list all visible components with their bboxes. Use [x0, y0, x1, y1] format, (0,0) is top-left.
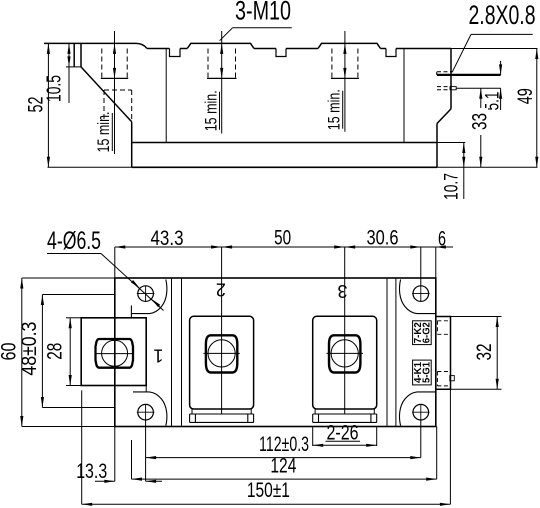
svg-text:48±0.3: 48±0.3 — [18, 322, 41, 376]
svg-text:150±1: 150±1 — [247, 479, 290, 502]
svg-text:2: 2 — [216, 279, 226, 299]
svg-text:3-M10: 3-M10 — [235, 0, 291, 26]
svg-text:124: 124 — [270, 455, 296, 478]
svg-text:32: 32 — [473, 344, 496, 361]
svg-text:43.3: 43.3 — [151, 227, 184, 250]
svg-text:6: 6 — [438, 228, 446, 251]
svg-text:3: 3 — [337, 281, 347, 301]
svg-text:4-Ø6.5: 4-Ø6.5 — [47, 227, 101, 255]
svg-text:6-G2: 6-G2 — [421, 322, 432, 343]
svg-text:15 min.: 15 min. — [325, 89, 344, 130]
svg-text:50: 50 — [274, 227, 291, 250]
svg-text:112±0.3: 112±0.3 — [259, 433, 309, 456]
svg-text:5-G1: 5-G1 — [421, 362, 432, 383]
svg-text:5.1: 5.1 — [483, 91, 504, 110]
svg-text:33: 33 — [468, 113, 491, 130]
svg-text:49: 49 — [514, 88, 537, 104]
svg-text:15 min.: 15 min. — [94, 112, 113, 153]
svg-text:10.7: 10.7 — [441, 173, 462, 200]
svg-text:15 min.: 15 min. — [201, 90, 220, 131]
svg-text:1: 1 — [153, 345, 163, 365]
svg-text:13.3: 13.3 — [76, 460, 107, 483]
svg-text:28: 28 — [44, 343, 67, 360]
svg-text:30.6: 30.6 — [367, 227, 399, 250]
svg-text:10.5: 10.5 — [43, 75, 65, 102]
svg-text:2.8X0.8: 2.8X0.8 — [469, 0, 536, 30]
svg-text:2-26: 2-26 — [327, 421, 359, 444]
